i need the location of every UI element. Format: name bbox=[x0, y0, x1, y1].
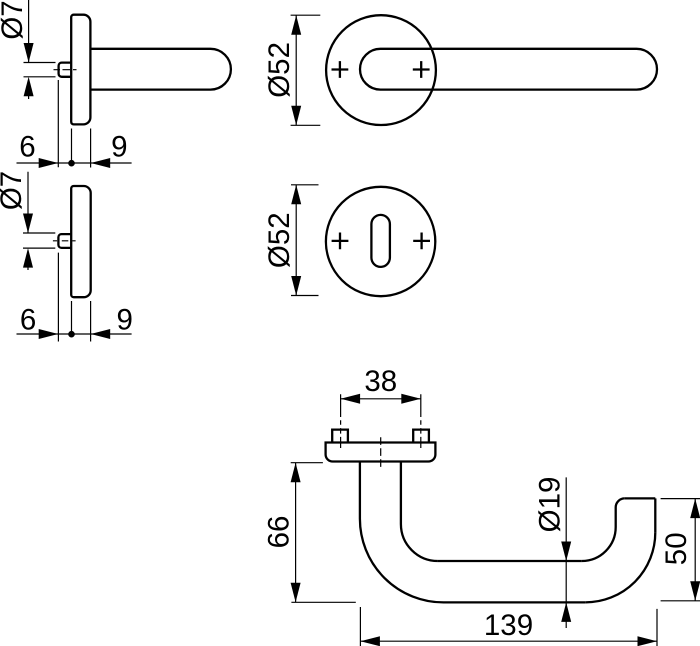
dimension Ø52 (view 4): down arrow bbox=[291, 276, 301, 296]
dimension 50: up arrow bbox=[690, 499, 700, 518]
dimension 139: dimension line bbox=[360, 640, 657, 642]
dimension 38: right arrow bbox=[401, 394, 421, 404]
plate centerline (view 5) bbox=[380, 437, 382, 467]
dimension 6/9 (view 2): left-pointing arrow bbox=[91, 329, 111, 339]
svg-text:6: 6 bbox=[19, 131, 35, 164]
lever front view stadium (view 3) bbox=[360, 49, 657, 90]
dimension Ø7 (view 2): extension lines bbox=[23, 233, 55, 248]
dimension 66: up arrow bbox=[291, 463, 301, 483]
dimension Ø52 (view 4): witness ticks bbox=[291, 185, 319, 296]
dimension 6/9 (view 1): dimension line bbox=[17, 162, 132, 164]
spindle centerline (view 2) bbox=[53, 240, 76, 242]
fixing plate (view 5) bbox=[326, 443, 436, 462]
dimension Ø52 (view 4): dimension line bbox=[295, 185, 297, 296]
dimension Ø52 (view 3): dimension line bbox=[295, 15, 297, 125]
dimension Ø52 (view 3): witness ticks bbox=[291, 15, 321, 125]
neck outer contour (view 5) bbox=[360, 462, 444, 603]
svg-text:66: 66 bbox=[263, 516, 296, 549]
dimension 139: left arrow bbox=[360, 636, 380, 646]
screw centerline right (view 5) bbox=[420, 394, 422, 448]
escutcheon circle (view 4) bbox=[326, 187, 435, 296]
dimension Ø52 (view 3): up arrow bbox=[291, 15, 301, 35]
svg-text:9: 9 bbox=[111, 131, 127, 164]
dimension 6/9 (view 1): right-pointing arrow bbox=[39, 158, 59, 168]
grip top line (view 5) bbox=[438, 560, 582, 562]
dimension Ø19: up arrow bbox=[561, 602, 571, 622]
dimension Ø7 (view 1): down arrow bbox=[24, 43, 34, 63]
screw right (view 5) bbox=[413, 430, 429, 443]
dimension Ø52 (view 3): down arrow bbox=[291, 106, 301, 126]
dimension 139: right arrow bbox=[638, 636, 658, 646]
svg-text:139: 139 bbox=[484, 609, 533, 642]
spindle boss (view 2) bbox=[58, 234, 71, 248]
hook outer fillet (view 5) bbox=[585, 532, 655, 602]
dimension Ø7 (view 1): leader line bbox=[28, 0, 30, 99]
dimension 66: down arrow bbox=[291, 583, 301, 603]
dimension Ø7 (view 2): down arrow bbox=[23, 214, 33, 234]
screw left (view 5) bbox=[332, 430, 348, 443]
svg-text:50: 50 bbox=[660, 532, 693, 565]
svg-text:Ø7: Ø7 bbox=[0, 171, 28, 210]
dimension Ø19: dimension line bbox=[565, 477, 567, 628]
screw centerline left (view 5) bbox=[340, 394, 342, 448]
screw cross right (view 3) bbox=[413, 61, 430, 78]
spindle centerline (view 1) bbox=[54, 69, 77, 71]
svg-text:Ø52: Ø52 bbox=[263, 212, 296, 268]
hook right edge (view 5) bbox=[654, 498, 656, 532]
grip bottom line (view 5) bbox=[444, 601, 586, 603]
dimension 50: dimension line bbox=[694, 499, 696, 601]
dimension 6/9 (view 2): dimension line bbox=[17, 333, 132, 335]
screw cross right (view 4) bbox=[413, 233, 430, 250]
dimension 6/9 (view 2): extension lines bbox=[58, 253, 90, 342]
dimension 6/9 (view 1): left-pointing arrow bbox=[91, 158, 111, 168]
svg-text:Ø7: Ø7 bbox=[0, 0, 29, 39]
dimension 38: left arrow bbox=[341, 394, 361, 404]
screw cross left (view 4) bbox=[332, 233, 349, 250]
dimension Ø7 (view 2): leader line bbox=[27, 172, 29, 270]
rose circle (view 3) bbox=[326, 15, 436, 125]
dimension 50: witness ticks bbox=[661, 499, 700, 601]
hook inner fillet (view 5) bbox=[582, 527, 616, 561]
dimension 139: extension lines bbox=[360, 607, 657, 646]
svg-text:9: 9 bbox=[116, 303, 132, 336]
escutcheon plate side view (view 2) bbox=[71, 186, 91, 297]
svg-text:Ø52: Ø52 bbox=[263, 42, 296, 98]
dimension 6/9 (view 1): chain dot bbox=[68, 160, 75, 167]
keyhole slot (view 4) bbox=[371, 215, 390, 267]
neck inner contour (view 5) bbox=[401, 462, 438, 561]
hook top edge (view 5) bbox=[625, 497, 656, 499]
dimension Ø52 (view 4): up arrow bbox=[291, 185, 301, 205]
dimension 38: dimension line bbox=[341, 398, 421, 400]
screw cross left (view 3) bbox=[332, 61, 349, 78]
dimension 66: witness ticks bbox=[291, 463, 356, 603]
svg-text:Ø19: Ø19 bbox=[533, 477, 566, 533]
dimension 50: down arrow bbox=[690, 581, 700, 601]
lever shaft side view (view 1) bbox=[90, 49, 231, 90]
dimension Ø7 (view 1): extension lines bbox=[24, 63, 56, 77]
hook stub left edge (view 5) bbox=[616, 498, 625, 527]
dimension 66: dimension line bbox=[295, 463, 297, 603]
rose plate side view (view 1) bbox=[71, 15, 90, 125]
dimension 6/9 (view 2): chain dot bbox=[68, 331, 75, 338]
dimension 6/9 (view 2): right-pointing arrow bbox=[39, 329, 59, 339]
dimension Ø7 (view 2): up arrow bbox=[23, 248, 33, 268]
svg-text:38: 38 bbox=[364, 365, 397, 398]
spindle boss (view 1) bbox=[59, 63, 72, 77]
dimension Ø19: down arrow bbox=[561, 542, 571, 562]
svg-text:6: 6 bbox=[20, 303, 36, 336]
dimension Ø7 (view 1): up arrow bbox=[24, 77, 34, 97]
dimension 6/9 (view 1): extension lines bbox=[58, 80, 90, 168]
